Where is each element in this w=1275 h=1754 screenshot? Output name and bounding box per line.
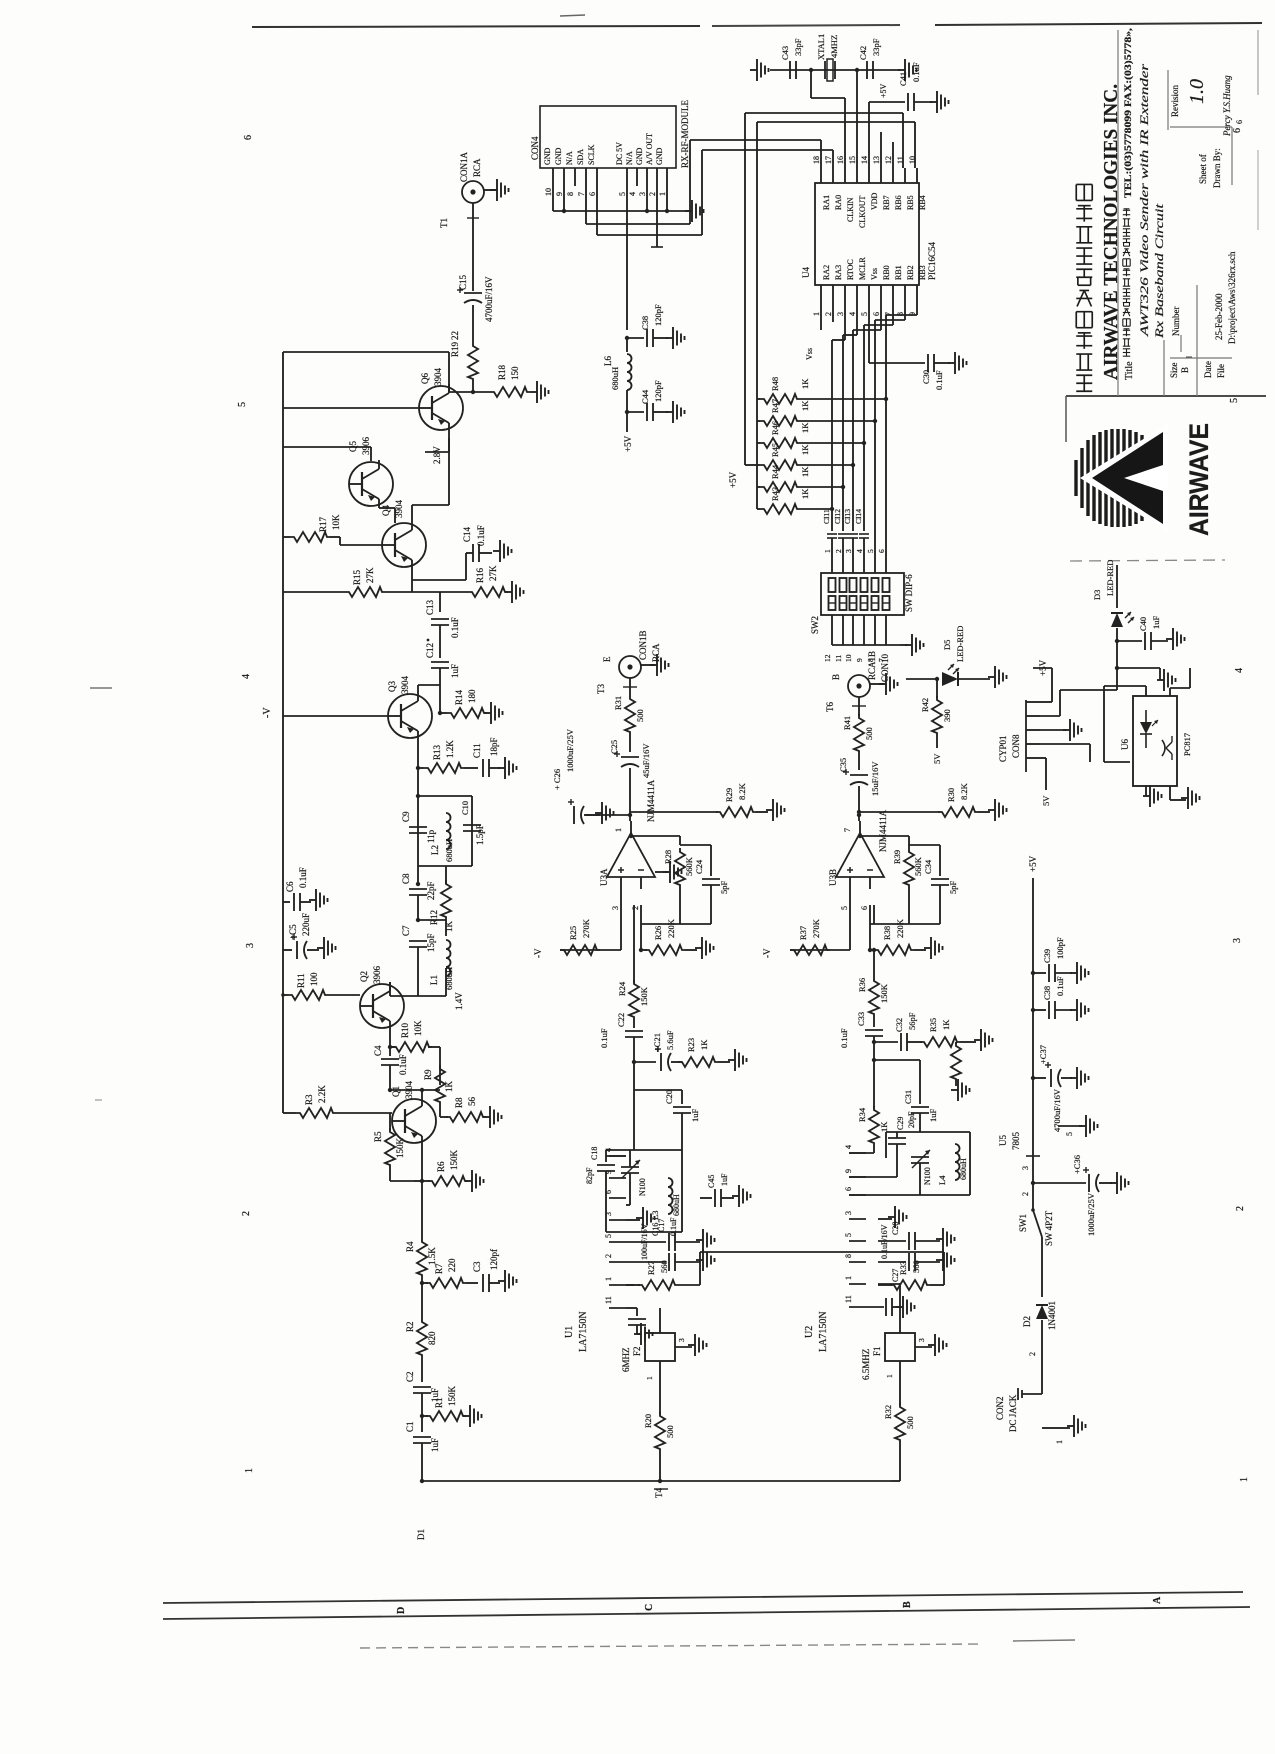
company address Chinese — [1123, 209, 1130, 356]
diode D2 — [1022, 1250, 1057, 1368]
label PIC16C54 — [927, 241, 937, 280]
svg-text:R38: R38 — [882, 926, 892, 940]
svg-text:R7: R7 — [434, 1263, 444, 1274]
svg-text:1: 1 — [1055, 1440, 1064, 1444]
inductor L3 — [650, 1178, 681, 1220]
resistor R35 — [920, 1018, 976, 1047]
svg-text:R16: R16 — [475, 567, 485, 583]
svg-text:D: D — [396, 1607, 407, 1614]
svg-text:PIC16C54: PIC16C54 — [927, 241, 937, 280]
svg-text:150K: 150K — [447, 1386, 457, 1407]
svg-text:N/A: N/A — [565, 151, 574, 165]
label 2.8V — [432, 446, 442, 464]
label 5V under R42 — [932, 753, 942, 764]
svg-text:0.1uF: 0.1uF — [450, 617, 460, 638]
inductor L4 — [937, 1144, 968, 1185]
ground after C11 — [498, 757, 517, 779]
ground after D5 — [988, 666, 1007, 688]
capacitor C14 — [412, 525, 486, 580]
svg-text:1: 1 — [658, 192, 667, 196]
svg-text:NJM4411A: NJM4411A — [646, 779, 656, 822]
resistor R23 — [678, 1038, 730, 1067]
svg-text:500: 500 — [905, 1416, 915, 1429]
svg-text:+C37: +C37 — [1038, 1045, 1048, 1064]
wire RB6 stub up — [892, 142, 894, 168]
svg-text:R29: R29 — [724, 788, 734, 802]
file label — [1216, 364, 1226, 378]
resistor R47 — [757, 399, 877, 426]
node T1 — [439, 218, 479, 228]
svg-text:R45: R45 — [770, 443, 780, 457]
wire U3B input node — [857, 813, 861, 821]
capacitor C1 — [405, 1416, 440, 1481]
svg-text:R25: R25 — [568, 926, 578, 940]
svg-text:F2: F2 — [632, 1346, 642, 1356]
svg-text:RCA: RCA — [651, 643, 661, 662]
svg-text:1K: 1K — [800, 422, 810, 433]
resistor R37 — [790, 918, 830, 955]
svg-text:33pF: 33pF — [793, 38, 803, 56]
wire rail top branch — [283, 352, 449, 390]
left zone numbers — [237, 135, 256, 1473]
svg-text:560K: 560K — [684, 856, 694, 876]
capacitor C48 — [625, 304, 668, 347]
svg-text:SCLK: SCLK — [587, 144, 596, 165]
LED D5 — [906, 626, 990, 686]
wire U6 pins — [1104, 668, 1206, 809]
ground after C39 — [1070, 962, 1089, 984]
svg-text:R46: R46 — [770, 421, 780, 435]
label U2 LA7150N — [804, 1311, 829, 1352]
svg-text:R33: R33 — [898, 1261, 908, 1275]
wire Q5 to Q4 link — [379, 508, 395, 523]
transistor Q6 — [419, 368, 473, 433]
svg-text:C9: C9 — [401, 811, 411, 822]
resistor R25 — [560, 918, 600, 955]
svg-text:C25: C25 — [609, 740, 619, 754]
wire rail to Q3 base — [283, 715, 388, 717]
svg-text:D2: D2 — [1022, 1316, 1032, 1327]
svg-text:1uF: 1uF — [450, 664, 460, 678]
capacitor C36 — [1072, 1155, 1112, 1236]
svg-text:1N4001: 1N4001 — [1047, 1301, 1057, 1330]
svg-text:8.2K: 8.2K — [959, 782, 969, 800]
connector CON1B RCA — [602, 630, 661, 678]
label CON4 — [530, 136, 540, 160]
resistor R5 — [373, 1113, 414, 1181]
resistor R30 — [938, 782, 990, 817]
ground CON1B — [641, 654, 669, 676]
svg-text:1K: 1K — [941, 1019, 951, 1030]
resistor R4 — [405, 1238, 437, 1285]
wire C13 chain top — [412, 592, 445, 612]
capacitor C10 — [460, 801, 485, 845]
svg-text:PC817: PC817 — [1182, 733, 1192, 756]
svg-text:2: 2 — [631, 906, 640, 910]
svg-text:4700uF/16V: 4700uF/16V — [484, 276, 494, 322]
svg-text:Size: Size — [1169, 362, 1179, 378]
wire U2 pin9 row — [849, 1158, 897, 1177]
svg-text:20pF: 20pF — [907, 1111, 916, 1128]
svg-text:CON10: CON10 — [880, 653, 890, 682]
svg-text:220K: 220K — [895, 918, 905, 938]
capacitor C11 — [472, 737, 500, 777]
svg-text:680uH: 680uH — [444, 839, 454, 862]
svg-text:C44: C44 — [640, 389, 650, 404]
svg-text:CLKIN: CLKIN — [846, 197, 855, 222]
svg-text:18: 18 — [812, 156, 821, 164]
svg-text:4: 4 — [628, 192, 637, 196]
label SW DIP-6 — [904, 574, 914, 612]
ladder column wires — [832, 399, 886, 527]
svg-text:2: 2 — [604, 1254, 613, 1258]
transistor Q4 — [381, 500, 426, 570]
svg-text:3906: 3906 — [372, 966, 382, 985]
svg-text:+5V: +5V — [1028, 855, 1038, 872]
CON4 pin labels right group — [615, 133, 664, 165]
ground after R23 — [728, 1049, 747, 1071]
resistor R38 — [868, 918, 926, 955]
svg-text:10K: 10K — [331, 514, 341, 530]
svg-text:R32: R32 — [883, 1405, 893, 1419]
svg-text:T6: T6 — [825, 702, 835, 712]
capacitor C15 — [457, 262, 494, 342]
ground after R16 — [505, 581, 524, 603]
connector CON2 DC JACK — [995, 1368, 1070, 1444]
U6 internal transistor — [1162, 736, 1172, 760]
capacitor C5 — [283, 913, 319, 959]
svg-text:Q3: Q3 — [387, 681, 397, 692]
svg-text:R47: R47 — [770, 399, 780, 413]
svg-text:NJM4411A: NJM4411A — [878, 809, 888, 852]
capacitor C25 — [609, 740, 651, 815]
resistor R31 — [613, 695, 645, 752]
svg-text:33pF: 33pF — [871, 38, 881, 56]
optocoupler U6 box — [1120, 696, 1192, 786]
ground after R14 — [484, 702, 503, 724]
resistor R3 — [283, 1085, 392, 1118]
svg-text:11: 11 — [604, 1296, 613, 1304]
capacitor C43 — [780, 38, 803, 79]
ground after C40 — [1166, 628, 1185, 650]
svg-text:R43: R43 — [770, 487, 780, 501]
sheet top border line — [252, 15, 1262, 27]
svg-text:9: 9 — [844, 1169, 853, 1173]
svg-text:16: 16 — [836, 156, 845, 164]
wire R29 row — [630, 811, 718, 813]
svg-text:5: 5 — [604, 1234, 613, 1238]
svg-text:CON8: CON8 — [1011, 734, 1021, 758]
svg-text:0.1uF: 0.1uF — [911, 62, 921, 82]
capacitor C24 — [694, 848, 729, 924]
svg-text:6MHZ: 6MHZ — [621, 1348, 631, 1373]
ground U1 C16 — [696, 1229, 715, 1251]
svg-text:GND: GND — [635, 147, 644, 165]
svg-text:8: 8 — [566, 192, 575, 196]
transistor Q3 — [387, 676, 432, 741]
wire U3B out chain — [873, 905, 875, 977]
svg-text:C20: C20 — [664, 1090, 674, 1104]
svg-text:R18: R18 — [497, 364, 507, 380]
svg-text:LA7150N: LA7150N — [578, 1311, 589, 1352]
wire AVOUT no-connect — [651, 186, 663, 247]
svg-text:7: 7 — [577, 192, 586, 196]
wire Q6 emitter down — [425, 432, 449, 452]
ground U2 C27 — [936, 1249, 955, 1271]
wire U1 audio couple — [700, 1251, 944, 1253]
logo underline dashes — [1070, 560, 1225, 561]
label +5V ladder — [728, 471, 738, 488]
svg-text:1000uF/25V: 1000uF/25V — [1086, 1192, 1096, 1236]
svg-text:U5: U5 — [998, 1135, 1008, 1146]
svg-text:RA3: RA3 — [834, 265, 843, 280]
svg-text:3906: 3906 — [361, 437, 371, 456]
svg-text:2: 2 — [241, 1211, 252, 1216]
wire RB1 down — [864, 303, 893, 443]
svg-text:C13: C13 — [425, 599, 435, 615]
svg-text:15pF: 15pF — [426, 933, 436, 952]
wire Q6 base to rail — [283, 407, 419, 409]
svg-text:RTOC: RTOC — [846, 259, 855, 280]
node Q2 base — [281, 993, 285, 997]
wire Q2 collector to C7 L1 — [390, 982, 446, 1006]
svg-text:4: 4 — [241, 674, 252, 679]
capacitor C16 U1 — [626, 1223, 700, 1260]
svg-text:2: 2 — [1235, 1206, 1246, 1211]
svg-text:R36: R36 — [857, 978, 867, 992]
svg-text:560: 560 — [659, 1260, 669, 1273]
resistor R15 — [283, 567, 412, 597]
label 1.4V — [454, 992, 464, 1010]
wire U2 pin6 row — [849, 1194, 970, 1196]
U3B feedback bottom rail — [870, 889, 940, 924]
svg-text:27K: 27K — [365, 567, 375, 583]
U3A feedback bottom rail — [641, 905, 711, 924]
ground right of crystal — [898, 59, 917, 81]
op-amp U3B — [836, 821, 884, 889]
capacitor C29 — [886, 1111, 916, 1177]
ground after C5 — [317, 937, 336, 959]
svg-text:R19: R19 — [450, 341, 460, 357]
IC U4 PIC16C54 box — [815, 183, 919, 285]
label NJM4411A U3A — [646, 779, 656, 822]
wire RB0 down — [853, 303, 881, 465]
svg-text:C3: C3 — [472, 1261, 482, 1272]
ground after C41 — [930, 91, 949, 113]
ground after C6 — [309, 889, 328, 911]
ground after C26 — [584, 802, 614, 824]
wire +5V rail — [1032, 878, 1034, 1146]
svg-text:0.1uF: 0.1uF — [934, 370, 944, 390]
svg-text:C14b: C14b — [659, 1281, 660, 1282]
svg-text:1.5pF: 1.5pF — [475, 824, 485, 845]
AIRWAVE logo text — [1184, 423, 1214, 536]
wire U1 pin1 to F2 — [626, 1285, 660, 1333]
svg-text:4: 4 — [848, 312, 857, 316]
svg-text:220K: 220K — [666, 918, 676, 938]
svg-text:1K: 1K — [800, 400, 810, 411]
svg-text:R35: R35 — [928, 1018, 938, 1032]
svg-text:2: 2 — [1028, 1352, 1037, 1356]
svg-text:3904: 3904 — [400, 676, 410, 695]
capacitor C32 — [874, 1012, 922, 1051]
size dash — [1186, 356, 1192, 358]
wire Q2 emitter — [388, 1030, 392, 1049]
wire RB5 route — [745, 113, 903, 465]
svg-text:18pF: 18pF — [489, 737, 499, 756]
svg-text:56: 56 — [467, 1097, 477, 1107]
svg-text:R5: R5 — [373, 1131, 383, 1142]
svg-text:R3: R3 — [304, 1094, 314, 1105]
switch SW1 — [1018, 1208, 1054, 1250]
svg-text:RA1: RA1 — [822, 195, 831, 210]
CON4 pin stubs right — [618, 168, 667, 196]
svg-text:RA2: RA2 — [822, 265, 831, 280]
date label — [1203, 361, 1213, 378]
resistor R34 — [857, 1060, 889, 1153]
ground after C30 — [948, 352, 967, 374]
svg-text:6: 6 — [243, 135, 254, 140]
resistor R18 — [473, 364, 530, 397]
svg-text:A: A — [1152, 1596, 1163, 1604]
sheet bottom border lines with skew — [163, 1592, 1250, 1648]
svg-text:2: 2 — [824, 312, 833, 316]
svg-text:GND: GND — [543, 147, 552, 165]
svg-text:RA0: RA0 — [834, 195, 843, 210]
wire C8 R12 join — [416, 918, 446, 936]
tank L2 C9 C10 frame — [418, 796, 472, 866]
svg-text:U4: U4 — [801, 267, 811, 278]
wire U1 pin rows join tank — [606, 1156, 634, 1232]
crystal bus wire — [770, 69, 900, 71]
crystal XTAL1 — [816, 34, 839, 81]
SW2 bottom pin stubs — [823, 615, 886, 662]
U4 bottom pin stubs — [812, 285, 917, 316]
op-amp U3A — [607, 821, 655, 889]
ground CON4 bus — [685, 200, 704, 222]
svg-text:R11: R11 — [296, 973, 306, 988]
svg-text:L6: L6 — [603, 356, 613, 366]
sheet title line 2 — [1152, 203, 1166, 339]
svg-text:3: 3 — [604, 1212, 613, 1216]
svg-text:1uF: 1uF — [720, 1173, 729, 1186]
wire Vss to C30 — [805, 303, 925, 363]
svg-text:U2: U2 — [804, 1326, 815, 1338]
svg-text:+5V: +5V — [879, 83, 888, 98]
trimmer C19 — [621, 1150, 647, 1205]
node R14 — [438, 711, 442, 715]
capacitor C3 — [472, 1249, 500, 1292]
svg-text:B: B — [831, 674, 841, 680]
svg-text:10K: 10K — [413, 1020, 423, 1036]
svg-text:6.5MHZ: 6.5MHZ — [861, 1349, 871, 1380]
ground left of crystal — [750, 59, 769, 81]
wire feedback to output — [858, 834, 909, 845]
resistor R10 — [390, 1020, 440, 1085]
wire R17 to Q4 base — [340, 537, 382, 545]
U4 top pin stubs — [812, 156, 917, 183]
company tel fax — [1123, 27, 1134, 198]
svg-text:6: 6 — [1235, 120, 1244, 124]
svg-text:AIRWAVE TECHNOLOGIES INC.: AIRWAVE TECHNOLOGIES INC. — [1100, 84, 1122, 380]
svg-text:1K: 1K — [800, 488, 810, 499]
capacitor C41 — [898, 62, 932, 111]
ground after R8 — [483, 1106, 502, 1128]
svg-text:5: 5 — [618, 192, 627, 196]
wire bottom signal bus — [420, 1479, 891, 1483]
U2 tank frame — [886, 1132, 970, 1195]
wire CLKIN from crystal — [809, 68, 845, 168]
svg-text:GND: GND — [655, 147, 664, 165]
sheet title line 1 — [1137, 64, 1151, 338]
resistor R39 — [892, 848, 923, 924]
number label — [1171, 307, 1181, 337]
svg-text:RB7: RB7 — [882, 195, 891, 210]
ground after R1 — [463, 1405, 482, 1427]
svg-text:E: E — [602, 656, 612, 662]
svg-text:220uF: 220uF — [301, 913, 311, 936]
svg-text:CON1B: CON1B — [638, 630, 648, 660]
svg-text:R15: R15 — [352, 569, 362, 585]
svg-text:TEL:(03)5778099 FAX:(03)5778»: TEL:(03)5778099 FAX:(03)5778», — [1123, 27, 1134, 198]
pin5 ground right — [1058, 1115, 1098, 1137]
SW2 top pin stubs — [823, 549, 886, 573]
drawn by label — [1212, 148, 1222, 188]
svg-text:-V: -V — [533, 948, 543, 958]
svg-text:100uF/16V: 100uF/16V — [640, 1223, 649, 1260]
svg-text:15uF/16V: 15uF/16V — [870, 761, 880, 796]
svg-text:500: 500 — [864, 727, 874, 740]
resistor R11 — [283, 972, 360, 1000]
svg-text:CI11: CI11 — [822, 509, 831, 524]
wire Q5 emitter to Q4 — [378, 508, 380, 530]
svg-text:RB5: RB5 — [906, 195, 915, 210]
svg-text:XTAL1: XTAL1 — [816, 34, 826, 60]
svg-text:R13: R13 — [432, 744, 442, 760]
svg-text:5V: 5V — [932, 753, 942, 764]
wire tank to C8 row — [416, 866, 446, 886]
svg-text:R41: R41 — [842, 716, 852, 730]
resistor R12 — [429, 880, 454, 932]
resistor R7 — [422, 1258, 478, 1288]
regulator U5 7805 — [998, 1132, 1040, 1211]
inductor L6 — [603, 338, 632, 414]
svg-text:+ C26: + C26 — [552, 769, 562, 790]
svg-text:22pF: 22pF — [426, 881, 436, 900]
svg-text:CON2: CON2 — [995, 1396, 1005, 1420]
svg-text:2: 2 — [834, 549, 843, 553]
wire con8 pin4 — [1040, 744, 1130, 762]
trimmer C21B — [911, 1150, 932, 1195]
wire SDA run — [586, 140, 821, 224]
ground after R6 — [465, 1170, 484, 1192]
svg-text:1.2K: 1.2K — [445, 740, 455, 758]
svg-text:U6: U6 — [1120, 739, 1130, 750]
size label — [1169, 362, 1179, 378]
resistor R19 — [450, 331, 478, 392]
svg-text:Title: Title — [1124, 361, 1135, 380]
svg-text:C4: C4 — [373, 1045, 383, 1056]
wire Q1 collector — [388, 1088, 440, 1097]
label NJM4411A U3B — [878, 809, 888, 852]
svg-text:CI13: CI13 — [843, 509, 852, 524]
svg-text:17: 17 — [824, 156, 833, 164]
svg-text:1: 1 — [885, 1374, 894, 1378]
svg-text:0.1uF: 0.1uF — [298, 867, 308, 888]
capacitor C38b — [1031, 976, 1072, 1019]
svg-text:U3A: U3A — [599, 868, 609, 886]
svg-text:R4x: R4x — [946, 1057, 947, 1058]
